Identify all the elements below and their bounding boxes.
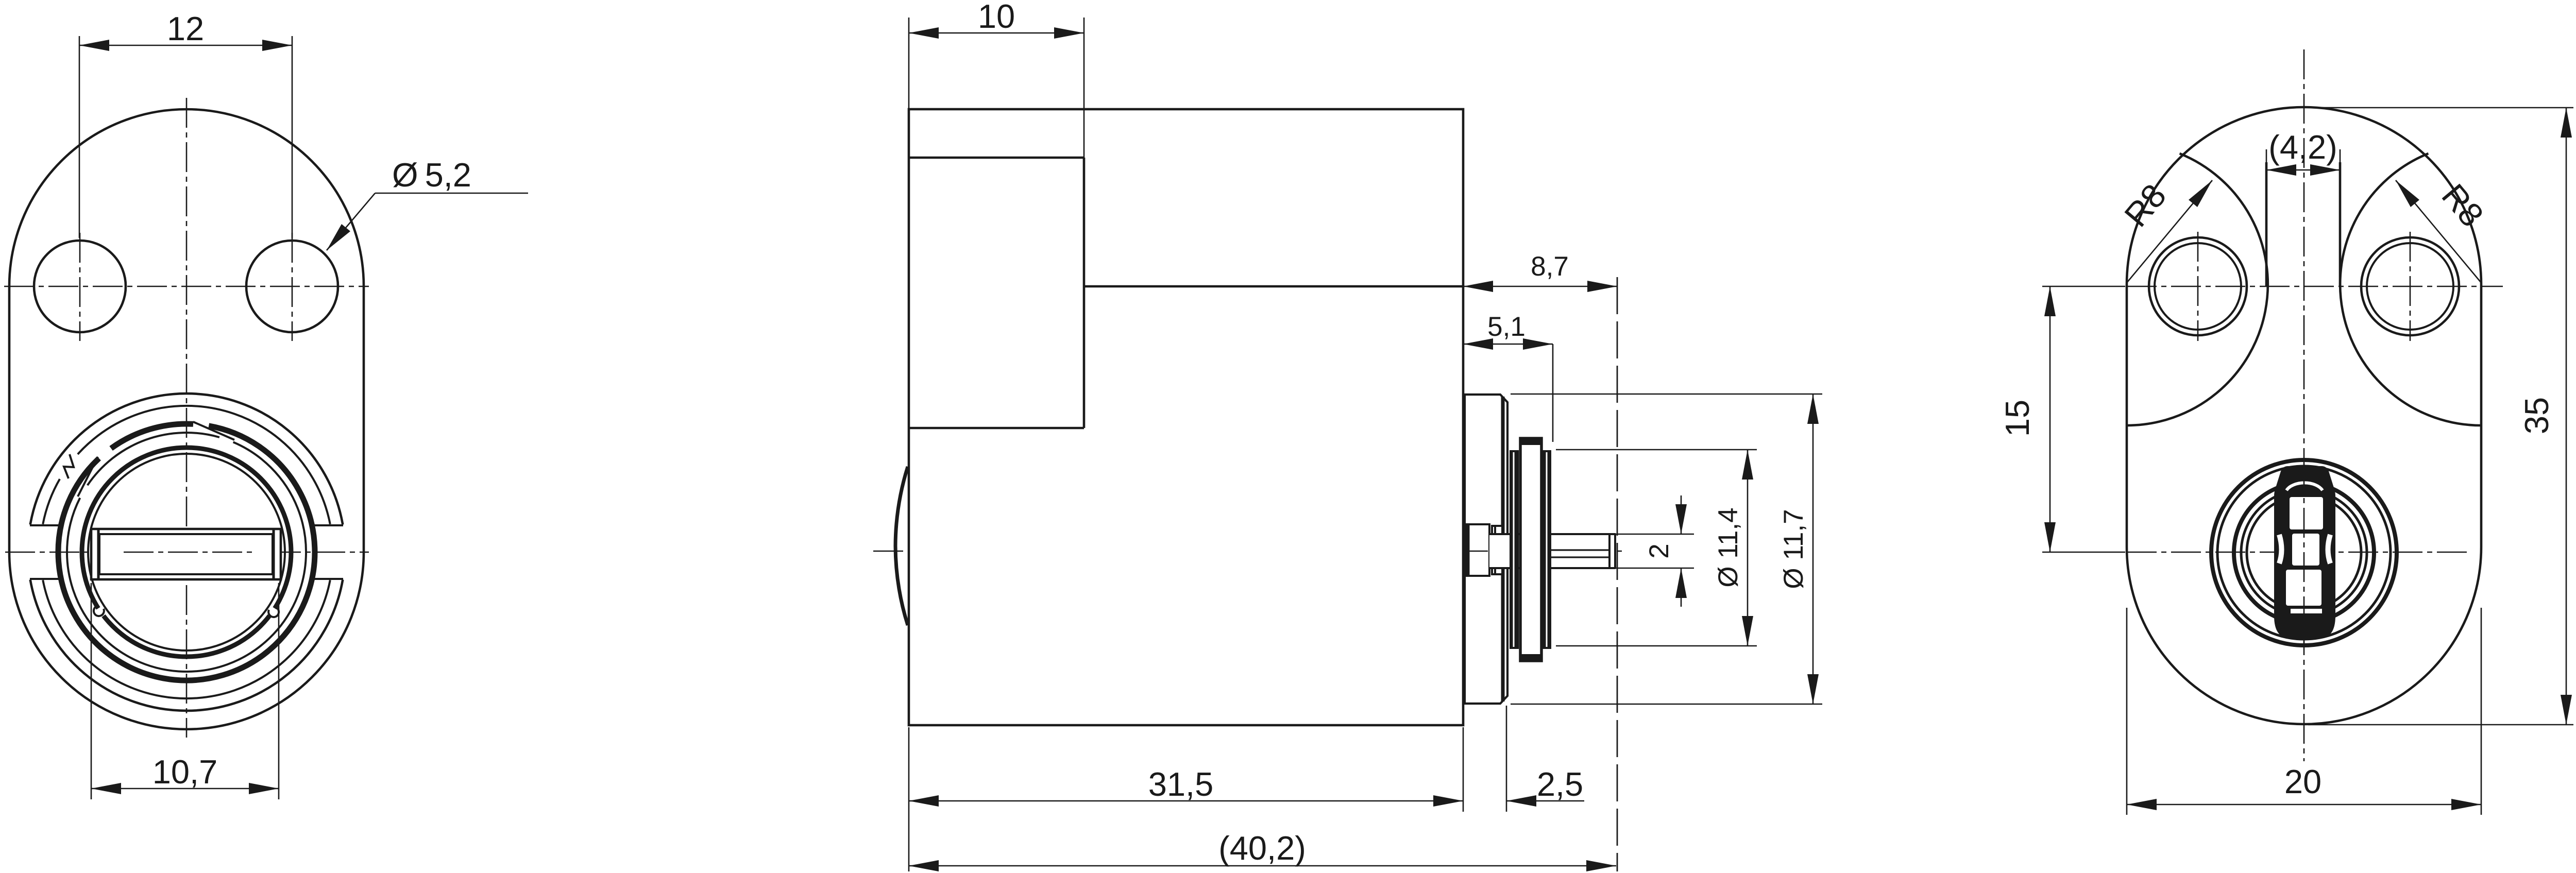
oval body outline — [2127, 107, 2481, 724]
center line vertical — [186, 98, 188, 738]
ring break lightning upper left — [60, 454, 78, 479]
left view: front face of oval lock cylinder — [4, 10, 528, 799]
spring washer disc D — [1543, 450, 1551, 649]
screwdriver slot inner — [99, 534, 273, 574]
center line horizontal through plug — [5, 552, 369, 553]
R8 label left — [2127, 180, 2212, 283]
dimension 5,1 — [1463, 344, 1553, 345]
plug circle thick — [82, 448, 291, 657]
center line vertical — [2303, 49, 2305, 761]
plug rings — [2211, 460, 2397, 645]
dimension 2 — [1586, 534, 1694, 535]
svg-text:(40,2): (40,2) — [1218, 829, 1306, 867]
dimension (40,2) — [909, 865, 1616, 867]
R8 label right — [2396, 180, 2481, 283]
dimension 31,5 — [908, 727, 910, 871]
rear hole left — [2149, 237, 2247, 335]
clip cut diagonal upper right — [193, 422, 234, 440]
svg-text:10: 10 — [978, 0, 1015, 35]
center line horizontal through holes — [4, 286, 369, 287]
svg-text:5,1: 5,1 — [1487, 312, 1526, 342]
svg-text:31,5: 31,5 — [1148, 765, 1214, 803]
oval body outline — [9, 109, 364, 729]
dimension 12 — [79, 36, 80, 238]
clip cut diagonal upper left — [78, 457, 98, 497]
body outline — [909, 109, 1463, 725]
housing block right edge — [1083, 158, 1086, 428]
svg-text:2,5: 2,5 — [1537, 765, 1583, 803]
rear hole right — [2361, 237, 2459, 335]
slot center dash — [124, 552, 252, 553]
R8 shoulder arc left — [2127, 153, 2268, 425]
center line horizontal axis — [873, 551, 1623, 552]
center line horizontal plug — [2042, 552, 2125, 553]
center line over keyway — [2303, 464, 2305, 644]
actuator pin — [1489, 535, 1615, 568]
R8 shoulder arc right — [2340, 153, 2481, 425]
plug anti-drill notch lower right — [269, 608, 275, 616]
plug face bump left — [895, 467, 908, 625]
svg-text:12: 12 — [167, 10, 204, 47]
long extension line at pin tip — [1617, 277, 1618, 871]
svg-text:20: 20 — [2284, 763, 2321, 800]
keyway profile — [2274, 466, 2335, 639]
dimension 2,5 — [1506, 706, 1507, 812]
svg-text:15: 15 — [1998, 400, 2036, 437]
dimension 35 — [2313, 107, 2573, 109]
dimension diameter 11,4 — [1556, 449, 1757, 451]
dimension 8,7 — [1463, 286, 1617, 287]
svg-text:2: 2 — [1644, 543, 1674, 558]
body step edge — [1084, 285, 1463, 288]
dimension 20 — [2126, 608, 2128, 815]
center line horizontal holes — [2042, 286, 2125, 287]
dimension (4,2) — [2266, 149, 2267, 164]
neck edge right — [2339, 162, 2342, 286]
svg-text:10,7: 10,7 — [152, 753, 218, 791]
washer on flange — [1492, 526, 1502, 574]
mounting hole right — [246, 241, 338, 332]
svg-text:Ø 5,2: Ø 5,2 — [392, 156, 471, 194]
dimension 10 — [908, 18, 910, 109]
cap notch left — [30, 524, 59, 526]
dimension 15 — [2049, 286, 2051, 552]
svg-text:35: 35 — [2518, 397, 2555, 434]
svg-text:Ø 11,4: Ø 11,4 — [1713, 507, 1743, 587]
housing block bottom edge — [909, 427, 1084, 430]
svg-text:Ø 11,7: Ø 11,7 — [1778, 509, 1809, 589]
mounting hole left — [34, 241, 126, 332]
cap outer ring with side notches — [30, 393, 343, 524]
svg-text:(4,2): (4,2) — [2268, 128, 2337, 166]
cam tab on body edge — [1465, 524, 1489, 576]
svg-text:8,7: 8,7 — [1531, 251, 1569, 282]
drive disc C — [1520, 438, 1541, 661]
neck edge left — [2265, 162, 2268, 286]
retaining clip outer edge thick, two slanted cuts — [58, 426, 315, 680]
label diameter 5,2 — [375, 193, 528, 194]
dimension 10,7 — [91, 583, 92, 799]
screwdriver slot outer — [91, 529, 281, 579]
dimension diameter 11,7 — [1511, 393, 1822, 395]
spring washer disc B — [1510, 450, 1519, 649]
flange disc A — [1465, 395, 1507, 704]
clip inner edge — [67, 442, 306, 672]
body top strip edge — [909, 157, 1084, 159]
cap notch right — [314, 524, 343, 526]
right view: rear face of cylinder — [1998, 49, 2573, 815]
plug anti-drill notch lower left — [98, 608, 104, 616]
middle view: side elevation of cylinder — [873, 0, 1822, 871]
